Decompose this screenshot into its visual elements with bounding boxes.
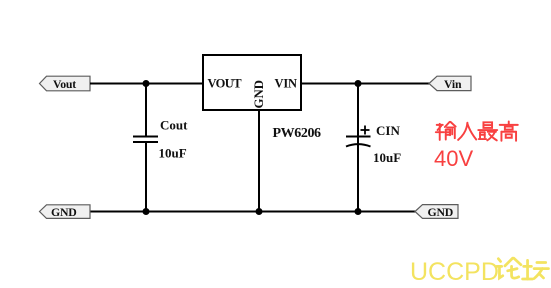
polarity plus mark [361,126,370,135]
wire node Vout down to Cout [145,84,147,138]
wire Vout port to U1 VOUT pin [90,83,203,85]
port Vin [429,76,471,91]
svg-text:10uF: 10uF [159,146,187,161]
port Vout [40,76,91,91]
svg-text:10uF: 10uF [373,150,401,165]
wire Cout to ground rail [145,142,147,212]
port GND right [415,205,458,219]
wire node Vin down to CIN [357,84,359,138]
junction ground rail / U1 GND [256,208,263,215]
watermark UCCPD forum (yellow) [410,258,548,286]
svg-text:GND: GND [428,205,454,219]
junction ground rail / CIN [355,208,362,215]
svg-text:GND: GND [51,205,77,219]
ground rail wire [90,211,415,213]
svg-text:GND: GND [252,80,266,108]
op IC U1 body [203,55,301,110]
capacitor C2 CIN polarized [346,137,371,147]
wire U1 VIN pin to Vin port [301,83,430,85]
annotation Chinese: input maximum (red) [436,121,518,140]
svg-text:VIN: VIN [275,77,297,91]
junction node Vin/CIN [355,80,362,87]
svg-text:VOUT: VOUT [208,77,243,91]
port GND left [40,205,91,219]
junction node Vout/Cout [143,80,150,87]
svg-text:UCCPD: UCCPD [410,258,499,286]
svg-text:PW6206: PW6206 [273,126,322,141]
svg-text:Vout: Vout [53,77,76,91]
svg-text:CIN: CIN [376,123,400,138]
wire CIN to ground rail [357,145,359,212]
svg-text:40V: 40V [434,146,473,171]
wire U1 GND pin to ground rail [258,110,260,212]
svg-text:Cout: Cout [160,118,188,133]
svg-text:Vin: Vin [444,77,462,91]
capacitor C1 Cout [133,137,158,143]
junction ground rail / Cout [143,208,150,215]
